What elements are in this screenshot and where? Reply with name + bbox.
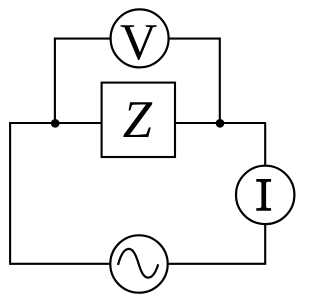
svg-text:Z: Z [123, 91, 153, 149]
AC source circle [110, 235, 167, 292]
AC source sine wave [118, 249, 158, 278]
impedance Z box [102, 83, 175, 157]
voltmeter V1 circle [111, 9, 169, 67]
ammeter I1 label I [256, 179, 271, 211]
wire top loop: left junction up, across top, down to right junction [55, 39, 220, 123]
svg-text:V: V [120, 14, 157, 71]
ammeter I1 circle [236, 166, 294, 224]
wire outer loop: left side, bottom, right side [10, 123, 265, 264]
wire middle horizontal through Z [9, 122, 266, 124]
node junction dot left [51, 119, 60, 128]
node junction dot right [216, 119, 225, 128]
